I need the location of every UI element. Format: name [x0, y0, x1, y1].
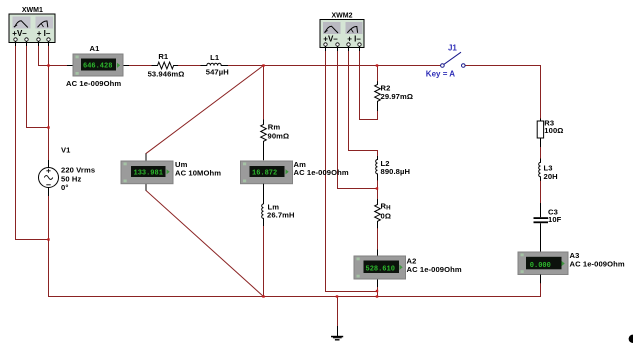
svg-text:AC 1e-009Ohm: AC 1e-009Ohm — [66, 79, 121, 88]
svg-text:AC 10MOhm: AC 10MOhm — [175, 168, 221, 177]
inductor L1 — [201, 53, 229, 76]
junction A2 bottom sense — [376, 290, 378, 292]
junction Lm bottom rail — [262, 295, 264, 297]
svg-text:A1: A1 — [90, 44, 101, 53]
wire XWM2 I- down and right to R2 bottom — [360, 51, 378, 120]
wire node A to Rm — [263, 66, 265, 120]
svg-text:+V–: +V– — [12, 29, 27, 38]
svg-text:646.428: 646.428 — [83, 62, 112, 70]
wire node to R2 top — [377, 66, 379, 82]
svg-text:Rm: Rm — [268, 123, 281, 132]
resistor R2 — [375, 81, 413, 111]
capacitor C3 — [534, 203, 562, 252]
svg-text:XWM2: XWM2 — [332, 13, 353, 20]
svg-text:J1: J1 — [448, 44, 457, 53]
wire L2 top lead red — [377, 151, 379, 157]
ammeter Am — [241, 160, 349, 184]
svg-text:L3: L3 — [544, 163, 553, 172]
resistor R3 — [537, 118, 563, 147]
svg-text:220 Vrms: 220 Vrms — [61, 165, 95, 174]
junction L2-RH node — [376, 187, 378, 189]
svg-text:547µH: 547µH — [206, 67, 229, 76]
svg-text:Key = A: Key = A — [426, 70, 455, 79]
wire L2 bottom to junction — [377, 180, 379, 189]
svg-text:XWM1: XWM1 — [22, 7, 43, 14]
svg-text:V1: V1 — [61, 145, 71, 154]
wire L3 to C3 — [540, 181, 542, 203]
wire XWM1 V- down and right to V1 top — [27, 46, 49, 128]
wire top main from A1 to R1 — [129, 65, 152, 67]
wire RH bottom to A2 top — [377, 228, 379, 249]
ammeter A1 — [66, 44, 129, 88]
junction A2 rail — [376, 295, 378, 297]
inductor Lm — [262, 184, 295, 226]
wire L1 to node A then to J1 — [228, 65, 441, 67]
wire diagonal Um bottom to rail — [146, 191, 264, 297]
svg-text:AC 1e-009Ohm: AC 1e-009Ohm — [294, 168, 349, 177]
junction ground rail — [336, 295, 338, 297]
bottom rail — [49, 296, 541, 298]
voltmeter Um — [121, 154, 221, 191]
junction at XWM1 I- crossing — [47, 64, 49, 66]
inductor L3 — [539, 159, 558, 182]
wire XWM2 V+ down and right to A2 bottom — [326, 51, 378, 292]
junction V- to V1 top — [47, 126, 49, 128]
ground — [331, 326, 343, 341]
resistor Rm — [261, 120, 289, 161]
wire XWM1 I- down to V1 top — [48, 46, 50, 160]
svg-text:+ I–: + I– — [347, 34, 361, 43]
wire J1 right to top-right corner down to R3 — [465, 66, 540, 119]
wire XWM2 V- down and right to L2-RH node — [338, 51, 378, 189]
switch J1 — [426, 44, 465, 79]
junction node A at L1 right — [262, 64, 264, 66]
wire R3 to L3 — [540, 147, 542, 159]
svg-text:133.981: 133.981 — [134, 170, 163, 178]
stray dot at right edge — [629, 335, 633, 343]
svg-text:90mΩ: 90mΩ — [268, 132, 290, 141]
voltage source V1 — [39, 145, 96, 196]
inductor L2 — [376, 156, 410, 180]
svg-text:528.610: 528.610 — [366, 265, 395, 273]
wire XWM1 I+ down and right to A1 — [39, 46, 68, 66]
wire V1 bottom down to rail — [48, 196, 50, 297]
svg-text:53.946mΩ: 53.946mΩ — [148, 70, 185, 79]
svg-text:0°: 0° — [61, 183, 68, 192]
svg-text:L1: L1 — [210, 53, 220, 62]
svg-text:29.97mΩ: 29.97mΩ — [381, 92, 414, 101]
svg-text:R1: R1 — [158, 52, 169, 61]
svg-text:16.872: 16.872 — [252, 170, 277, 178]
wire A2 bottom to rail — [377, 287, 379, 297]
svg-text:0.000: 0.000 — [530, 262, 551, 270]
svg-text:0Ω: 0Ω — [381, 211, 392, 220]
svg-text:20H: 20H — [544, 172, 558, 181]
wire XWM2 I+ down and right to L2 top — [349, 51, 378, 151]
resistor R1 — [148, 52, 185, 78]
wire junction to RH top — [377, 189, 379, 200]
wire ground riser — [337, 297, 339, 327]
svg-text:+V–: +V– — [323, 34, 338, 43]
svg-text:100Ω: 100Ω — [544, 126, 563, 135]
wire R1 to L1 — [178, 65, 201, 67]
svg-text:26.7mH: 26.7mH — [267, 211, 295, 220]
ammeter A3 — [518, 251, 625, 283]
wire Lm bottom to rail — [263, 226, 265, 297]
wire XWM1 V+ down and right to V1 bottom — [16, 46, 49, 240]
junction V+ to V1 bottom — [47, 238, 49, 240]
wire R2 bottom stub — [377, 111, 379, 120]
wire A3 bottom to rail — [540, 283, 542, 296]
wire diagonal node A to Um top — [146, 66, 264, 154]
svg-text:10F: 10F — [548, 215, 562, 224]
resistor RH — [375, 199, 391, 228]
svg-text:AC 1e-009Ohm: AC 1e-009Ohm — [407, 265, 462, 274]
svg-text:890.8µH: 890.8µH — [381, 167, 411, 176]
svg-text:+ I–: + I– — [37, 29, 51, 38]
ammeter A2 — [354, 250, 462, 288]
junction node R2 top — [376, 64, 378, 66]
wattmeter XWM1 — [9, 7, 55, 46]
svg-text:AC 1e-009Ohm: AC 1e-009Ohm — [570, 259, 625, 268]
wattmeter XWM2 — [320, 13, 364, 52]
